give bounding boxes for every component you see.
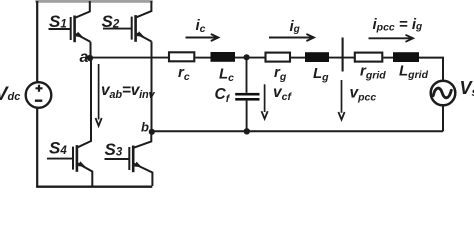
svg-text:a: a	[80, 49, 89, 66]
svg-text:b: b	[141, 120, 149, 135]
